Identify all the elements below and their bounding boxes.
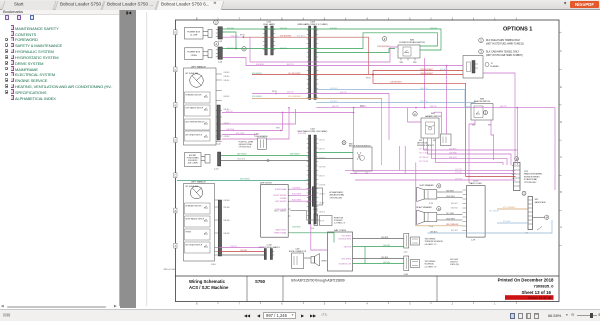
svg-text:LEFT SPEAKER: LEFT SPEAKER [420,184,435,187]
gray strip + page [120,10,136,309]
left handle [184,65,230,145]
svg-text:28B ORN/LBR: 28B ORN/LBR [446,224,459,226]
svg-text:ATT DETACH SWITCH: ATT DETACH SWITCH [186,243,203,246]
wire handle2 pin blk [219,254,265,256]
wire 05B handle run [222,112,354,114]
svg-text:24B BLU: 24B BLU [330,88,338,90]
wire 28B ORN/LBR [416,225,463,227]
connector C-108 gauge/toggle harn [258,245,280,260]
svg-text:S750: S750 [255,279,266,284]
svg-text:CLOSE: CLOSE [190,35,198,37]
wire handle1 pin a [222,130,283,132]
connector C-103 toggle/gauge [239,128,280,150]
wire C079 feed long a [345,169,516,171]
svg-text:05B ORN: 05B ORN [236,133,245,135]
note ref circle 2 [214,42,219,47]
svg-text:24T PKGR: 24T PKGR [419,161,429,163]
wire handle2 pin red [219,251,265,253]
wire hazard pin 2 [428,138,512,165]
title block [164,269,559,302]
bucket positioning solenoid [185,152,221,171]
svg-text:POWER PORT/ACH SWITCH: POWER PORT/ACH SWITCH [399,41,425,44]
wire 24B GN inner loop [222,32,236,49]
svg-text:24T GN/LB: 24T GN/LB [489,211,499,213]
schematic border frame [175,20,559,302]
left speaker [417,184,441,205]
svg-text:SP16: SP16 [240,35,245,37]
wire C079 feed long b [350,173,516,175]
svg-text:HORN: HORN [322,261,328,263]
svg-text:44B TN: 44B TN [332,106,339,108]
wire hazard pin 1 [424,138,518,165]
svg-text:SEE HARN: SEE HARN [450,258,459,261]
connector C-14 [216,47,223,63]
switch SW2 backup position [342,141,372,175]
svg-text:14B GN: 14B GN [280,48,287,50]
svg-text:SIGNAL: SIGNAL [280,197,286,200]
switch SW1 hazard [417,113,442,147]
svg-text:C-107: C-107 [313,209,318,211]
svg-text:C-7B: C-7B [429,226,434,228]
svg-text:C079: C079 [524,171,528,173]
svg-text:B01B BRN: B01B BRN [292,199,302,201]
svg-text:24B BRL: 24B BRL [381,257,389,259]
border column ticks top [218,18,516,20]
wire A1P speed GN [291,233,335,243]
svg-text:04B GN: 04B GN [319,149,324,151]
svg-text:24B GRY: 24B GRY [449,157,458,159]
svg-text:8: 8 [196,301,198,305]
wire 09B GN/LB teal [177,180,309,182]
note ref circle 2 [214,20,219,25]
svg-text:19B GN: 19B GN [383,245,390,247]
wire handle1 pin a0 [222,109,296,124]
wire DAV 19B GN 2 [353,263,404,265]
two speed solenoid L-17 [404,234,444,254]
svg-text:SP17: SP17 [276,128,280,130]
svg-text:05B ORN: 05B ORN [298,133,307,135]
svg-text:4.1 OHM 1.7 V: 4.1 OHM 1.7 V [425,267,438,269]
radio connector C073 [451,181,485,242]
wire 44B branch riser [516,108,518,150]
wire beacon pin drop left [469,120,475,183]
power box open [185,48,213,60]
svg-text:01B TN: 01B TN [319,221,324,223]
svg-text:2: 2 [215,20,217,24]
svg-text:78C WHT: 78C WHT [446,213,455,215]
svg-text:L3B BLK: L3B BLK [224,80,230,82]
svg-text:C4B BRN: C4B BRN [292,187,301,189]
svg-text:07D BLK: 07D BLK [503,221,511,223]
svg-text:5: 5 [324,301,326,305]
connector C105 horn [289,249,307,269]
svg-text:(S-8 COMP): (S-8 COMP) [188,163,198,165]
svg-text:HORN AND SW2 SPD: HORN AND SW2 SPD [186,93,203,96]
svg-text:09B GN: 09B GN [319,176,324,178]
wire C106 riser a [446,66,448,135]
svg-text:C79 TN: C79 TN [455,178,462,180]
wire A1P left buzzer [291,200,313,202]
wire 24B BLU [316,90,471,108]
svg-text:DLX CAB HARN 7309311 ONLY: DLX CAB HARN 7309311 ONLY [486,50,520,53]
power box close [185,28,213,40]
svg-text:S/N A3P215700 through A3P21589: S/N A3P215700 through A3P215899 [291,279,345,283]
svg-text:Sheet 14 of 16: Sheet 14 of 16 [528,296,551,300]
svg-text:B05 BLU: B05 BLU [297,36,305,38]
note ref circle 2 [484,111,488,115]
svg-text:SW5: SW5 [400,62,404,64]
wire SW2 feed BLK [316,158,353,160]
wire right speaker signal [437,214,463,216]
wire right speaker gnd2 [437,219,463,221]
svg-text:7309835_0: 7309835_0 [533,284,554,289]
svg-text:C: C [560,156,562,159]
svg-text:TWO SPEED: TWO SPEED [425,238,436,240]
svg-text:6: 6 [281,301,283,305]
wire flasher to C079 riser [483,73,515,165]
wire bucket solenoid BLK [221,160,309,162]
svg-text:07B GN/LB: 07B GN/LB [252,96,262,98]
svg-text:24B BRL: 24B BRL [381,237,389,239]
svg-text:LIFT SIGNAL WHL: LIFT SIGNAL WHL [185,185,199,188]
wire handle2 pin a [219,247,265,249]
svg-text:SP11: SP11 [360,106,364,108]
connector C101 FUEL HARN [263,22,276,55]
svg-text:A: A [560,226,562,229]
svg-text:GND BLK: GND BLK [237,159,246,161]
note 2 [479,38,524,46]
right handle [184,180,230,265]
connector C-107 [312,187,344,211]
svg-text:BACKUP ALM: BACKUP ALM [535,201,546,204]
svg-text:2: 2 [452,301,454,305]
svg-text:07B GN: 07B GN [330,28,337,30]
svg-text:OPTIONS ONLY: OPTIONS ONLY [524,182,537,184]
svg-text:LEFT HANDLE: LEFT HANDLE [191,180,206,183]
svg-text:R3B BLK: R3B BLK [224,220,230,222]
svg-text:C-14: C-14 [218,61,223,63]
wire hazard pin 3 [432,138,508,165]
svg-text:24B BLU: 24B BLU [319,212,325,214]
wire C079 riser a [399,146,401,170]
svg-text:07D ORN/BLK: 07D ORN/BLK [503,207,516,209]
svg-text:SOLENOID LOW: SOLENOID LOW [339,263,352,265]
svg-text:SPEED SIGNAL: SPEED SIGNAL [274,232,286,235]
svg-text:SOLENOID: SOLENOID [334,220,343,222]
wire 17B BLK stub [222,36,243,38]
svg-text:SOLENOID: SOLENOID [425,264,435,266]
wire RD to flasher low [373,74,463,76]
svg-text:LIFT SIGNAL WHL: LIFT SIGNAL WHL [185,72,199,75]
svg-text:C-9: C-9 [311,228,314,230]
wire C079 feed c [355,179,516,181]
svg-text:W15: W15 [535,199,539,201]
wire drop to B03 run [249,37,251,62]
junction SP10 [275,93,277,95]
svg-text:4: 4 [366,301,368,305]
wire hazard pin 4 [436,138,504,165]
wire labels [226,28,516,264]
svg-text:Printed On December 2018: Printed On December 2018 [498,278,554,283]
svg-text:BEACON SWITCH: BEACON SWITCH [474,100,491,103]
svg-text:RIGHT HANDLE SWITCH: RIGHT HANDLE SWITCH [186,217,205,220]
border zone ticks right [559,32,562,246]
wire A1P 14-pin signal [291,211,315,221]
svg-text:SW1: SW1 [433,140,436,142]
svg-text:SP10: SP10 [272,91,277,93]
wire C-9 to solenoid [318,219,320,221]
svg-text:C79 TN: C79 TN [455,169,462,171]
wire bucket solenoid GN [221,155,309,157]
wire handle1 pin c [222,138,258,140]
svg-text:3: 3 [480,50,482,54]
svg-text:44B TN: 44B TN [319,203,324,205]
switch SW5 power port [398,40,425,64]
horn [311,254,327,267]
wire 28B BLK blue [428,220,553,233]
svg-text:TOGGLE/GAUGE: TOGGLE/GAUGE [254,135,268,138]
svg-text:24B TN: 24B TN [430,106,437,108]
svg-text:SP15: SP15 [366,78,371,80]
wire SW5 drop [424,58,426,108]
svg-text:B03 TN: B03 TN [287,64,294,66]
svg-text:C-3 OHM 1.2 V: C-3 OHM 1.2 V [334,223,346,225]
svg-text:19B GN: 19B GN [383,262,390,264]
tab bar [0,0,600,10]
svg-text:C-78: C-78 [471,240,475,242]
connector C-10 bar [218,200,221,256]
svg-text:GND RTN: GND RTN [344,246,352,248]
connector C-9 / high flow solenoid [311,214,346,230]
wire C10 RD/ORN [252,74,373,76]
svg-text:SOLENOID HIGH: SOLENOID HIGH [338,239,352,241]
switch SW3 beacon [471,99,493,127]
border zone numbers [196,16,496,305]
svg-text:A01B BRN: A01B BRN [292,193,302,196]
svg-text:17B BLK: 17B BLK [319,194,325,196]
svg-text:POWER BOX: POWER BOX [187,31,200,33]
svg-text:24T WLGR: 24T WLGR [419,157,429,159]
svg-text:A1P CTRLR: A1P CTRLR [260,181,272,184]
svg-text:(BH) ADDITIONAL: (BH) ADDITIONAL [330,194,345,197]
svg-text:21B GN: 21B GN [319,140,324,142]
wire 05B BRN run [222,58,463,66]
wire C-7 to alarm [533,216,545,218]
connector C079 [512,157,543,191]
svg-text:2: 2 [480,38,482,42]
border zone letter boxes left [174,30,177,248]
svg-text:HORN CONNECTOR: HORN CONNECTOR [289,251,307,253]
wire 22B BLU [316,103,475,104]
wire 01B TN run to left speaker [252,94,389,141]
svg-text:24T LLGR: 24T LLGR [419,152,428,154]
svg-text:07B GN: 07B GN [227,28,234,30]
svg-text:SW3: SW3 [472,124,475,126]
svg-text:04B GN/LB: 04B GN/LB [237,154,247,156]
wire 14B GN power box open [222,33,437,49]
svg-text:AT HVAC/RADIO: AT HVAC/RADIO [330,191,344,194]
svg-text:M: M [546,216,548,219]
svg-text:PUSH PULL (2B/HB: PUSH PULL (2B/HB [239,142,253,144]
svg-text:LEFT BUZZER: LEFT BUZZER [275,201,287,203]
svg-text:1: 1 [494,301,496,305]
svg-text:(NOT IN STD FUEL HARN 7149215): (NOT IN STD FUEL HARN 7149215) [486,43,524,46]
svg-text:R4B BLK: R4B BLK [224,233,230,235]
wire riser 415 [415,162,417,225]
svg-text:DLX FUEL HARN 7368834 ONLY: DLX FUEL HARN 7368834 ONLY [486,39,521,42]
svg-text:TO: TO [491,63,494,65]
svg-text:R2B BLK: R2B BLK [224,207,230,209]
svg-text:C5B TN: C5B TN [230,246,237,248]
wire DAV solenoid 2 blk [353,258,404,260]
svg-text:HORN SIGNAL: HORN SIGNAL [275,188,287,191]
svg-text:PRESS: PRESS [186,231,191,233]
wire A1P horn signal [291,188,313,190]
svg-text:(NOT IN STD CAB HARN 7218837): (NOT IN STD CAB HARN 7218837) [486,54,523,57]
wire 44B TN long run [316,108,555,190]
wire handle1 pin b [222,134,258,136]
svg-text:2: 2 [384,37,386,41]
two speed solenoid L-18 [404,256,460,276]
svg-text:2: 2 [414,112,416,116]
wire 14C GN [316,49,395,53]
svg-text:OPTIONS ONLY): OPTIONS ONLY) [239,146,252,148]
svg-text:RADIO CONN: RADIO CONN [469,182,482,185]
wire riser SW2 [353,108,355,147]
svg-text:07B GN/LB: 07B GN/LB [252,73,262,75]
svg-text:C4B PNK: C4B PNK [319,185,325,187]
wire left speaker gnd2 [437,197,463,199]
svg-text:B: B [560,191,562,194]
svg-text:FRONT BUZZER: FRONT BUZZER [274,195,288,197]
wire DAV solenoid 1 blk [353,238,404,240]
svg-text:4.8 OHM 1.7 V: 4.8 OHM 1.7 V [425,244,438,246]
wire 07D BLK into C-7 [497,222,528,224]
wire 04B ORN run [252,99,382,166]
wire left speaker signal [437,191,463,193]
svg-text:OPEN: OPEN [191,55,197,57]
svg-text:B12 GRY: B12 GRY [451,230,459,232]
svg-text:B05 BLU: B05 BLU [440,69,448,71]
svg-text:GND WHT: GND WHT [446,218,456,220]
svg-text:HAZARD SWITCH: HAZARD SWITCH [425,115,441,118]
svg-text:R1B BLK: R1B BLK [224,200,230,202]
svg-text:AUX OVERRIDE SWITCH: AUX OVERRIDE SWITCH [186,120,206,123]
svg-text:KIT ADDITIONAL: KIT ADDITIONAL [524,178,537,181]
note ref circle 2 [382,37,387,42]
svg-text:E: E [560,86,562,89]
connector C-13 [216,27,223,43]
svg-text:14B GN: 14B GN [227,48,234,50]
wire RD branch to flasher [373,71,463,75]
wire C079 feed red [466,176,516,178]
note ref circle 2 at C101 [242,47,246,51]
svg-text:FLASHER: FLASHER [491,65,500,68]
svg-text:SW5: SW5 [413,62,417,64]
svg-text:B09 GRY: B09 GRY [451,203,459,205]
svg-text:C-H1: C-H1 [404,274,408,276]
svg-text:D: D [560,121,562,124]
svg-text:REF of CHG: REF of CHG [164,269,176,271]
wire RD drop to SP15 [368,37,370,74]
svg-text:24B BLU: 24B BLU [420,88,428,90]
connector C108 WIRE HARN CONN C (LT GRAY) [297,22,327,100]
status bar [0,306,120,309]
wire 19B GN link [364,247,366,264]
svg-text:ATT DETACH SWITCH: ATT DETACH SWITCH [186,133,203,136]
svg-text:22B BLU: 22B BLU [330,101,338,103]
svg-text:28B BLK: 28B BLK [430,231,438,233]
svg-text:HEADLIGHT/FLASHER: HEADLIGHT/FLASHER [524,173,543,176]
svg-text:24T YLGR: 24T YLGR [419,148,428,150]
svg-text:07B GN: 07B GN [280,28,287,30]
svg-text:Wiring Schematic: Wiring Schematic [189,279,226,284]
svg-text:07B GN: 07B GN [430,28,437,30]
svg-text:OPTIONS 1: OPTIONS 1 [503,27,532,33]
svg-text:TWO SPEED: TWO SPEED [341,258,351,260]
svg-text:TWO SPEED: TWO SPEED [425,261,436,263]
controller DAV [328,229,353,271]
svg-text:7: 7 [239,301,241,305]
flasher connector [463,56,499,79]
svg-text:G: G [174,32,176,35]
svg-text:L-17: L-17 [404,252,408,254]
svg-text:C79 TN: C79 TN [455,172,462,174]
wire RD drop [373,75,466,177]
connector C-7 [522,191,533,234]
svg-text:05B BRN: 05B BRN [256,64,265,66]
note 3 [479,49,523,57]
svg-text:05B TN: 05B TN [226,111,233,113]
svg-text:D: D [175,140,177,143]
svg-text:TAKE SPECIAL: TAKE SPECIAL [417,142,428,145]
svg-text:C-12: C-12 [217,143,221,145]
wire branch to handle1 [282,113,284,131]
svg-text:09B GN/LB: 09B GN/LB [240,179,250,181]
svg-text:GND BLK: GND BLK [451,208,459,210]
svg-text:24B PNK: 24B PNK [449,152,458,154]
svg-text:C-74: C-74 [429,203,433,205]
svg-text:EXTERIOR WIRING: EXTERIOR WIRING [524,176,540,178]
svg-text:C0B GRN: C0B GRN [292,227,301,229]
backup alarm W15 [535,199,549,230]
svg-text:BACK FRONT: BACK FRONT [276,229,287,232]
svg-text:C5B RED/WHT: C5B RED/WHT [420,73,434,75]
junction SP9 [372,74,374,76]
wire C079 riser b [404,146,406,174]
svg-text:C5B RED/WHT: C5B RED/WHT [420,69,434,71]
svg-text:SW1: SW1 [419,140,422,142]
wire C-103 out [266,109,289,139]
svg-text:C5B RD/WHT: C5B RD/WHT [390,82,403,84]
svg-text:HIGH FLOW: HIGH FLOW [334,218,344,220]
wire dash to DAV [311,224,328,250]
svg-text:3: 3 [409,301,411,305]
connector C102 NEW DASH CONN 1 (DK GRAY) [298,128,328,224]
connector C106 [441,134,452,146]
svg-text:05B ORN: 05B ORN [319,167,325,169]
svg-text:07B ORN/WH2: 07B ORN/WH2 [288,96,301,98]
svg-text:ACS / SJC Machine: ACS / SJC Machine [189,285,229,290]
wire beacon pin drop right [491,120,494,160]
svg-text:L2B BLK: L2B BLK [224,76,230,78]
wire SW2 feed GN [316,152,353,154]
right speaker [416,206,441,228]
svg-text:TURNOFF SOLENOID: TURNOFF SOLENOID [425,241,444,243]
svg-text:C-1.0: C-1.0 [214,169,218,171]
splice on gnd [267,159,269,161]
border column ticks bottom [218,302,516,305]
